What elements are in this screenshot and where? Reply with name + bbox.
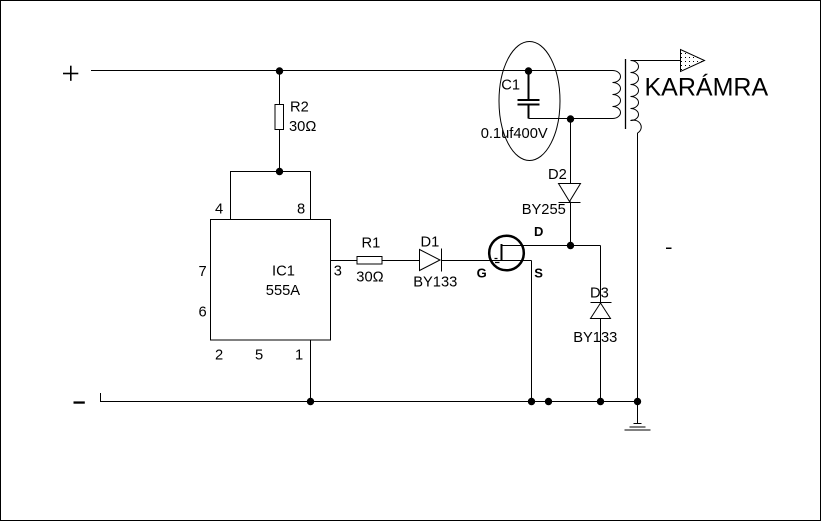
svg-text:BY133: BY133	[573, 330, 617, 346]
svg-text:30Ω: 30Ω	[289, 119, 316, 135]
svg-text:KARÁMRA: KARÁMRA	[645, 73, 769, 102]
svg-text:2: 2	[215, 347, 223, 363]
svg-text:6: 6	[199, 305, 207, 321]
svg-text:5: 5	[255, 347, 263, 363]
svg-text:7: 7	[199, 264, 207, 280]
svg-text:D: D	[534, 224, 543, 239]
svg-text:BY133: BY133	[413, 275, 457, 291]
svg-text:C1: C1	[501, 77, 520, 93]
svg-text:8: 8	[297, 202, 305, 218]
svg-text:3: 3	[334, 263, 342, 279]
svg-text:4: 4	[215, 202, 223, 218]
svg-text:S: S	[534, 266, 543, 281]
svg-text:D1: D1	[421, 235, 440, 251]
svg-text:R1: R1	[362, 236, 381, 252]
svg-text:D3: D3	[590, 286, 609, 302]
svg-text:G: G	[477, 266, 487, 281]
svg-text:BY255: BY255	[522, 202, 566, 218]
svg-text:IC1: IC1	[272, 263, 295, 279]
svg-text:30Ω: 30Ω	[356, 270, 383, 286]
svg-text:1: 1	[295, 347, 303, 363]
svg-text:555A: 555A	[266, 283, 301, 299]
svg-text:D2: D2	[548, 167, 567, 183]
svg-text:0.1uf400V: 0.1uf400V	[481, 126, 548, 142]
svg-text:R2: R2	[290, 100, 309, 116]
